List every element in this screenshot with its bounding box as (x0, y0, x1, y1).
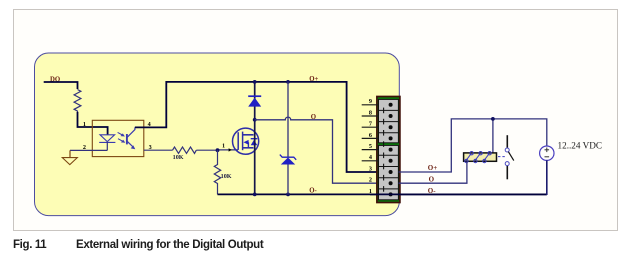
node O+ / D1 (253, 80, 257, 84)
net label DO (50, 76, 60, 83)
J1 pin contacts (389, 103, 393, 197)
rail O- bottom (218, 193, 547, 195)
svg-text:2: 2 (83, 144, 86, 151)
label 10K (R3) (221, 173, 232, 180)
wire R1 to pin1 (78, 112, 108, 135)
caption (13, 239, 613, 251)
svg-text:O-: O- (428, 187, 436, 195)
connector J1 body (377, 97, 400, 203)
net label O (311, 114, 316, 121)
switch S1 (505, 135, 514, 179)
J1 cell dividers (379, 110, 399, 188)
svg-text:O: O (429, 176, 435, 184)
wire gate lead (218, 149, 238, 151)
label 10K (R2) (173, 154, 184, 161)
svg-text:2: 2 (369, 177, 372, 184)
wire drain-source vertical (254, 82, 256, 194)
svg-text:1: 1 (83, 121, 86, 128)
relay coil K1 (464, 152, 497, 163)
op to coupler U1 box (92, 120, 144, 156)
svg-text:O+: O+ (428, 164, 437, 172)
node source / O- rail (253, 193, 257, 197)
diode D2 zener (280, 82, 296, 194)
U1 LED (99, 135, 115, 151)
wire pin3 to gate node (144, 149, 173, 151)
svg-text:12..24 VDC: 12..24 VDC (558, 141, 603, 151)
node O+ / D2 (286, 80, 290, 84)
port label O- (428, 187, 436, 195)
resistor R3 (214, 150, 220, 194)
wire coil bottom to pin2 (399, 161, 467, 183)
diode D1 (248, 96, 261, 106)
node coil / rail (491, 117, 495, 121)
transistor Q1 MOSFET (233, 128, 259, 154)
rail O middle with hop (255, 117, 378, 183)
wire pin2 to ground (70, 149, 107, 151)
J1 screw crosses (383, 108, 385, 192)
svg-text:O-: O- (309, 187, 317, 194)
pin number 2 (opto) (83, 144, 86, 151)
svg-text:O: O (311, 114, 316, 121)
port label O (429, 176, 435, 184)
J1 pin numbers (369, 98, 372, 195)
pin number 1 (opto) (83, 121, 86, 128)
net label O- (309, 187, 317, 194)
svg-text:5: 5 (369, 143, 372, 150)
svg-text:10K: 10K (173, 154, 184, 161)
wire R2 to gate node (196, 149, 217, 151)
resistor R2 (173, 147, 197, 153)
svg-text:9: 9 (369, 98, 372, 105)
pin number 4 (opto) (148, 121, 151, 128)
net label O+ (309, 76, 318, 83)
node gate junction (216, 148, 220, 152)
pin number 3 (opto) (149, 144, 152, 151)
source V1 (540, 146, 554, 160)
svg-text:8: 8 (369, 109, 372, 116)
mechanical link dashed (498, 156, 505, 158)
node drain / O rail (253, 118, 257, 122)
wire coil top lead (492, 119, 494, 153)
resistor R1 (74, 90, 81, 113)
wire source bottom (546, 160, 548, 195)
pin marker 1 (Q1 gate) (222, 143, 232, 152)
label 12..24 VDC (558, 141, 603, 151)
ground (62, 150, 77, 164)
svg-text:1: 1 (222, 143, 225, 150)
wire pin4 to O+ rail (135, 82, 377, 172)
U1 light arrows (118, 132, 126, 142)
rail O- through J1 (370, 193, 547, 195)
module block (yellow) (35, 53, 400, 216)
svg-text:3: 3 (369, 165, 372, 172)
wire DO input (44, 82, 78, 89)
svg-text:7: 7 (369, 121, 372, 128)
svg-text:6: 6 (369, 132, 372, 139)
svg-text:O+: O+ (309, 76, 318, 83)
svg-text:10K: 10K (221, 173, 232, 180)
J1 pin stubs (362, 105, 379, 161)
node D2 / O- rail (286, 193, 290, 197)
U1 phototransistor (127, 127, 135, 149)
svg-text:4: 4 (369, 154, 372, 161)
wire pin3 to relay rail (399, 119, 547, 172)
port label O+ (428, 164, 437, 172)
